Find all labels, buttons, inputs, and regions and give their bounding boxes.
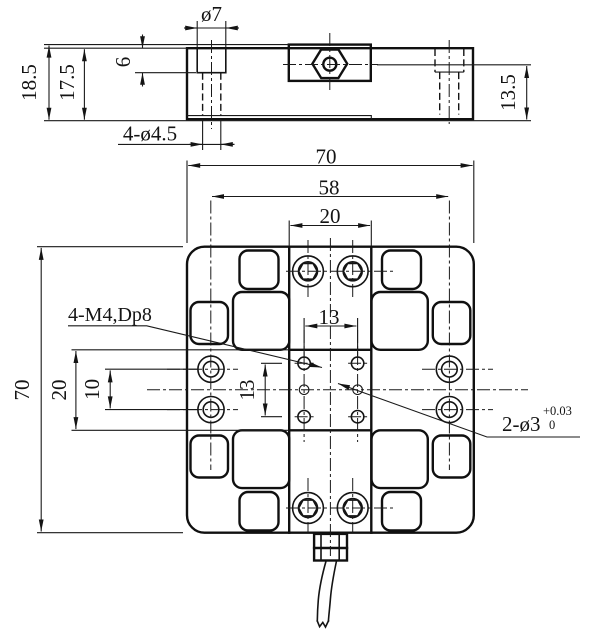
svg-text:ø7: ø7 [201, 2, 222, 26]
right counterbore hidden (side view) [435, 49, 464, 72]
dimension 4-o4.5 [118, 119, 235, 150]
svg-text:70: 70 [316, 145, 337, 169]
edge pocket lower-right [433, 436, 471, 478]
extension line body top (17.5) [44, 47, 187, 49]
svg-text:13.5: 13.5 [496, 74, 520, 111]
cable hole circle (side view) [323, 58, 336, 71]
big pocket upper-left [233, 292, 289, 350]
svg-text:10: 10 [80, 379, 104, 400]
left hole hidden lines [203, 73, 221, 116]
dimension 10 left [80, 369, 198, 409]
dowel hole right [353, 385, 363, 395]
dimension 70 top [187, 145, 474, 244]
svg-text:4-ø4.5: 4-ø4.5 [123, 122, 177, 146]
big pocket lower-left [233, 430, 289, 488]
mounting hole right-upper [436, 356, 462, 382]
leader 2-o3 with tolerance [338, 384, 580, 438]
right hole hidden lines [440, 72, 459, 114]
leader 4-M4,Dp8 [68, 304, 322, 368]
mounting hole right-lower [436, 397, 462, 423]
dimension 18.5 [17, 46, 49, 120]
svg-text:2-ø3: 2-ø3 [502, 412, 541, 436]
extension line bottom shared [44, 120, 531, 122]
screw holes bottom vertical centerlines [308, 478, 353, 533]
M4 hole top-right [351, 357, 363, 369]
cable [317, 561, 336, 628]
center block top line [289, 349, 371, 351]
dimension 6 [111, 35, 196, 87]
mounting hole left-lower [198, 397, 224, 423]
gland vertical centerline [329, 33, 331, 92]
dimension 13 left (vertical) [235, 363, 282, 416]
dimension o7 [184, 2, 239, 47]
big pocket upper-right [372, 292, 428, 350]
center block bottom line [289, 429, 371, 431]
dowel hole left [299, 385, 309, 395]
extension line top (18.5 from gland top) [44, 44, 289, 46]
svg-text:70: 70 [10, 380, 34, 401]
left holes vertical centerline / 58 extension [210, 201, 212, 471]
dimension 20 left [47, 350, 289, 431]
dimension 13 top (M4 spacing) [304, 305, 358, 356]
right hole centerline [448, 40, 450, 124]
svg-text:20: 20 [47, 380, 71, 401]
screw hole bottom-right [337, 493, 368, 524]
screw hole bottom-left [293, 493, 324, 524]
gland horizontal centerline [283, 64, 378, 66]
M4 holes horizontal tick centerlines [295, 363, 368, 416]
M4 hole top-left [298, 357, 310, 369]
center strip right edge [370, 247, 372, 533]
svg-text:58: 58 [319, 176, 340, 200]
edge pocket upper-right [433, 302, 471, 344]
side view bottom relief line [187, 116, 371, 120]
screw holes top horizontal centerline [286, 270, 393, 272]
side view body outline [187, 48, 473, 119]
hex nut on gland (side view) [312, 50, 347, 79]
plate outline [187, 247, 474, 533]
svg-text:13: 13 [319, 305, 340, 329]
mounting hole left-upper [198, 356, 224, 382]
dimension 70 left [10, 247, 183, 533]
right holes vertical centerline / 58 extension [448, 201, 450, 471]
cable gland (plan view) [314, 534, 347, 561]
M4 columns centerlines [304, 330, 358, 442]
cable gland boss (side view) [289, 45, 371, 81]
big pocket lower-right [372, 430, 428, 488]
screw holes top vertical centerlines [308, 240, 353, 300]
left holes horizontal centerlines [167, 369, 238, 409]
svg-text:0: 0 [549, 418, 555, 432]
svg-text:18.5: 18.5 [17, 64, 41, 101]
edge pocket upper-left [191, 302, 229, 344]
pocket bottom-right [382, 492, 421, 531]
svg-text:6: 6 [111, 57, 135, 68]
dimension 20 top [289, 204, 371, 246]
plan center horizontal centerline [147, 389, 528, 391]
center strip left edge [288, 247, 290, 533]
M4 hole bottom-right [351, 411, 363, 423]
screw holes bottom horizontal centerline [286, 507, 393, 509]
pocket bottom-left [240, 492, 279, 531]
svg-text:20: 20 [320, 204, 341, 228]
screw hole top-left [293, 256, 324, 287]
left counterbore (side view) [197, 48, 226, 72]
dimension 13.5 [377, 65, 531, 120]
plan center vertical centerline [329, 238, 331, 556]
screw hole top-right [337, 256, 368, 287]
edge pocket lower-left [191, 436, 229, 478]
dimension 58 [212, 176, 448, 200]
M4 hole bottom-left [298, 411, 310, 423]
pocket top-right [382, 251, 421, 290]
right holes horizontal centerlines [422, 369, 493, 409]
svg-text:4-M4,Dp8: 4-M4,Dp8 [68, 304, 152, 326]
pocket top-left [240, 251, 279, 290]
svg-text:13: 13 [235, 380, 259, 401]
svg-text:17.5: 17.5 [55, 64, 79, 101]
left hole centerline [211, 40, 213, 129]
svg-text:+0.03: +0.03 [543, 404, 572, 418]
dimension 17.5 [55, 49, 84, 120]
